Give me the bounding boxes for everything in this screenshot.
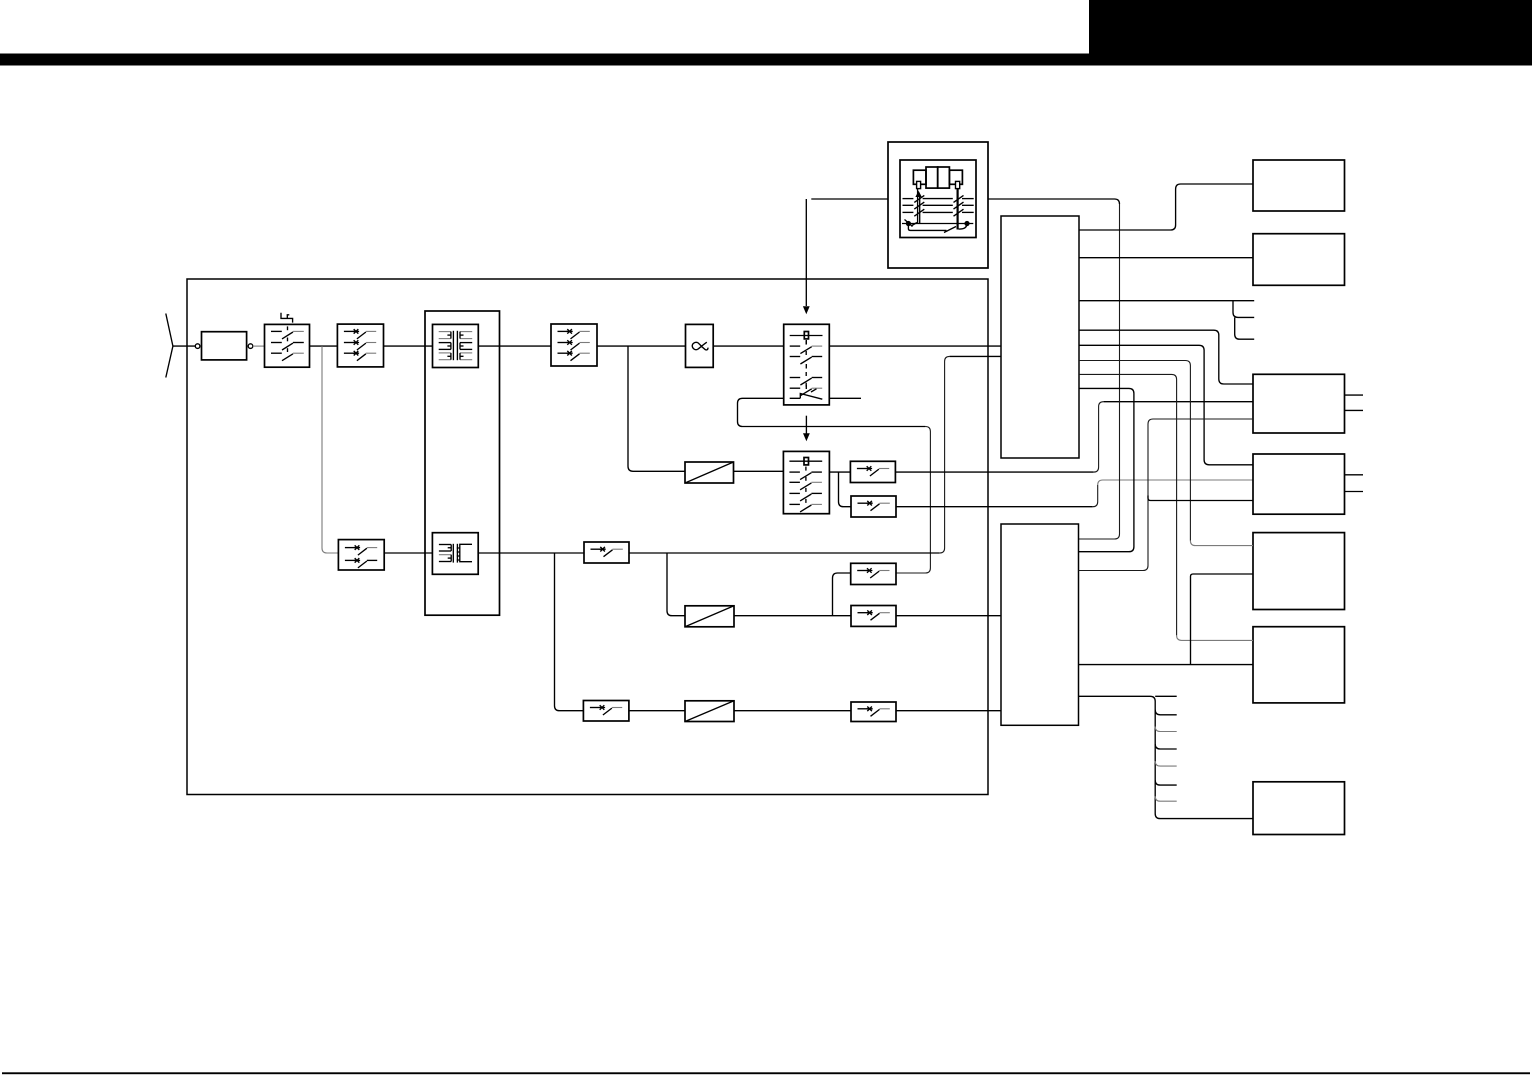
output box R2 [1253,234,1345,286]
K1 linkage dashes [805,340,807,389]
SWB5 contact [858,708,868,710]
wire SWB2 long run to R4 input 2 [896,506,1093,508]
wire R6 input 1 tail [1177,635,1253,640]
wire limiter to relay block K1 [713,345,784,347]
wire connector stub 3 [1235,317,1255,339]
wire loop tail down to SWB3 [896,427,930,574]
K1 contact rows [790,345,801,347]
wire branch to R4 input 3 [1148,496,1253,501]
output box R5 [1253,533,1345,610]
K1 top contact row with fuse [790,335,823,337]
wire SW1 to SW2 [310,345,338,347]
R4 output stub 1 [1345,474,1364,476]
SW6 contact [590,707,600,709]
wire SW6 to detector D3 [629,710,685,712]
wire branch A down to detector D1 [628,346,685,471]
wire IC1 connector stub 1 [1079,300,1254,302]
wire SW2 to transformer T1 [384,345,433,347]
pulse glyph above SW1 [281,313,293,323]
wire drum to IC2 playback line [988,199,1120,204]
limiter x symbol [692,342,708,350]
drum left head lead pair with arrow [917,189,919,223]
video-audio process IC1 [1001,216,1079,458]
switch box SWB5 [851,702,896,722]
switch box SW3 [551,324,597,366]
ladder stub 5 [1155,780,1177,785]
R3 output stub 2 [1345,409,1364,411]
wire K1 dead-end stub [829,397,861,399]
wire D1 to relay block K2 [734,470,784,472]
wire SW3 to limiter [597,345,686,347]
wire IC2 to R6 input 2 [1079,664,1254,666]
R4 output stub 2 [1345,491,1364,493]
wire terminal to switch box SW1 [253,345,265,347]
relay block K2 [783,451,829,513]
wire branch row3 down [555,553,584,711]
wire branch up to R5 input 2 [1191,574,1254,665]
arrow control into K2 [805,416,807,434]
wire SWB4 to chroma IC2 [896,615,1001,617]
output box R3 [1253,374,1345,433]
page header black box [1089,0,1532,60]
output box R1 [1253,160,1345,211]
transformer T1 box [433,324,479,367]
head drum inner box [900,160,976,238]
switch box SW1 [265,324,310,367]
SW2 contacts [344,330,354,332]
ladder stub 6 [1155,796,1177,801]
chroma-servo process IC2 [1001,524,1079,725]
output box R6 [1253,627,1345,703]
wire SWB1 long run to R3 input 2 [895,471,1093,473]
drum return path [908,225,967,233]
switch box SW5 [584,542,629,563]
transformer T1 windings [452,331,454,360]
drum slip-ring bus [902,223,973,225]
K2 top contact row with fuse [789,460,822,462]
wire R5 input 1 tail [1190,541,1253,546]
wire branch to detector D2 [667,553,685,616]
drum head pins [917,181,921,188]
wire IC1 to R1 [1079,184,1253,230]
wire SWB5 to IC2 [896,710,1001,712]
SW3 contacts [558,330,568,332]
wire connector stub 2 [1233,301,1254,318]
wire K2 branch to SWB2 [839,472,852,507]
SW4 contacts [345,547,355,549]
wire IC1 to R6 input 1 [1079,374,1177,635]
wire T1 to SW3 [478,345,551,347]
wire SW4 to transformer T2 [384,552,432,554]
switch box SW2 [337,324,383,367]
SWB1 contact [857,468,867,470]
wire drum playback vertical [1079,204,1120,539]
wire D2 to SWB4 [734,615,851,617]
drum brush dot right [964,221,969,226]
wire bracket up to SWB3 [833,573,852,616]
wire IC1 to R4 input 1 [1079,345,1253,465]
output box R7 [1253,782,1345,835]
wire K1 feedback loop [738,398,926,426]
SWB4 contact [858,612,868,614]
output box R4 [1253,454,1345,514]
D2 diagonal [685,606,734,627]
switch box SWB4 [851,606,896,627]
drum right head lead [956,189,958,230]
head drum outer box [888,142,988,268]
wire SWB2 run tail [1098,480,1253,485]
limiter box [686,324,714,367]
wire IC1 to R5 input 1 [1079,361,1190,541]
wire T2 to SW5 [478,552,584,554]
wire IC2 servo ladder to R7 [1079,696,1254,818]
ladder stub 4 [1155,761,1177,766]
wire IC2 to R3 input 3 [1079,419,1254,571]
SW5 contact [591,548,601,550]
drum contact slashes [905,220,918,227]
switch box SW6 [583,701,629,722]
SWB3 contact [857,570,867,572]
main unit boundary frame [187,279,988,795]
page header rule bar [0,54,1532,66]
RF input box [202,332,247,360]
K2 contact rows [789,471,800,473]
transformer module enclosure [425,311,500,615]
switch box SWB3 [851,563,896,584]
output terminal circle [248,344,253,349]
drum rotary transformer couplings [903,198,914,200]
D3 diagonal [685,701,734,722]
R3 output stub 1 [1345,394,1364,396]
transformer T2 windings [452,544,454,563]
wire drum to K1 head-switch line [811,198,888,200]
ladder stub 1 [1155,710,1177,715]
input terminal circle left [195,344,200,349]
SWB2 contact [858,502,868,504]
K1 bottom transfer contact [790,389,823,399]
detector D3 box [685,701,734,722]
switch box SWB1 [850,461,895,482]
detector D1 box [685,462,734,483]
wire antenna to terminal [173,345,196,347]
switch box SWB2 [851,496,896,517]
ladder stub 0 [1155,695,1177,697]
drum head chips [913,170,926,184]
D1 diagonal [685,462,734,483]
detector D2 box [685,606,734,627]
wire SW5 out long run to IC1 [629,552,940,554]
relay block K1 [784,324,830,405]
ladder stub 3 [1155,744,1177,749]
wire D3 to SWB5 [734,710,851,712]
wire branch row2 down [322,346,338,553]
wire K1 to video IC1 [829,345,1001,347]
ladder stub 2 [1155,727,1177,732]
arrow head-switching into K1 [805,199,807,306]
drum brush dot left [906,221,911,226]
SW1 contacts [271,330,282,332]
wire IC1 to R2 [1079,257,1253,259]
wire IC1 to IC2 link [1079,388,1134,551]
antenna input symbol [166,314,173,378]
page footer rule [2,1072,1530,1074]
wire K2 to SWB1 [829,471,850,473]
transformer T2 box [432,533,478,575]
wire IC1 to R3 input 1 [1079,330,1253,384]
switch box SW4 [338,540,384,570]
